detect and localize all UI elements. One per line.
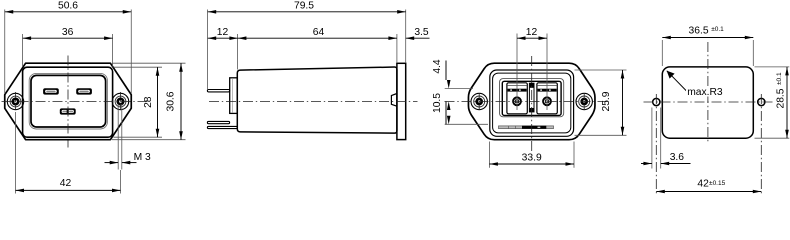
svg-text:25.9: 25.9 [601,91,612,111]
vertical centerline [531,56,533,152]
rear cover outer [490,70,574,136]
flange outline [5,63,132,140]
upper terminal pin [207,90,229,92]
dimension 3.6 [641,108,691,169]
svg-text:3.6: 3.6 [670,152,685,163]
svg-text:64: 64 [313,27,325,38]
gasket bump [391,94,397,107]
right hole centerline [760,94,762,195]
right washer [579,96,590,107]
left panel hole [653,98,660,105]
dimension 12 [517,27,547,40]
center vertical centerline [707,42,709,144]
earth contact slot [60,108,76,114]
flange side [397,63,406,139]
right terminal pocket [537,83,557,114]
body [237,67,397,133]
right mounting hole [118,99,123,104]
dimension 33.9 [489,142,574,168]
terminal housing [502,81,561,115]
vertical centerline [67,56,69,148]
svg-text:4.4: 4.4 [432,59,443,74]
flange outline [468,63,595,140]
left hole centerline [15,92,17,111]
svg-text:±0.15: ±0.15 [709,180,726,187]
contact slot L [43,88,59,94]
horizontal centerline [209,101,418,103]
face plate [23,67,113,137]
dimension M3 [105,104,152,170]
svg-text:max.R3: max.R3 [687,87,723,98]
left washer [474,96,485,107]
dimension 4.4 [432,59,473,88]
svg-text:79.5: 79.5 [294,0,314,11]
svg-text:12: 12 [526,27,538,38]
svg-text:36: 36 [62,27,74,38]
right ear boss [112,93,128,109]
left washer [10,96,21,107]
svg-text:42: 42 [697,178,709,189]
left ear boss [7,93,23,109]
right washer [115,96,126,107]
horizontal centerline [2,101,151,103]
right terminal screw [543,97,551,105]
dimension 42 [656,178,761,193]
dimension 10.5 [432,93,488,125]
rear cover inner [493,73,571,133]
left hole screw [477,99,482,104]
right hole screw [582,99,587,104]
dimension 64 [238,27,397,63]
svg-text:3.5: 3.5 [414,27,429,38]
dimension 42 [16,178,121,192]
svg-text:M 3: M 3 [134,152,151,163]
dimension 28 [114,67,163,137]
left hole centerline [655,94,657,195]
right hole centerline [120,92,122,111]
svg-text:10.5: 10.5 [432,93,443,113]
dimension 3.5 [406,27,430,40]
right ear boss [576,93,592,109]
svg-text:36.5: 36.5 [689,25,709,36]
left hole centerline [478,93,480,110]
right hole extension line [120,170,122,194]
svg-text:42: 42 [60,178,72,189]
earth tab [207,126,237,128]
dimension 28.5 [755,67,790,138]
recess chamfer [29,73,107,129]
horizontal centerline [445,101,608,103]
left hole extension line [15,112,17,194]
left terminal pocket [507,83,527,114]
svg-text:±0.1: ±0.1 [776,72,783,85]
terminal area outline [500,79,564,117]
horizontal centerline [644,101,775,103]
dimension 36 [23,27,113,67]
recess opening [31,75,106,127]
left ear boss [471,93,487,109]
right hole centerline [583,93,585,110]
svg-text:±0.1: ±0.1 [711,26,724,33]
svg-text:12: 12 [217,27,229,38]
svg-text:28.5: 28.5 [776,88,787,108]
dimension 25.9 [575,70,627,135]
divider [529,83,534,112]
contact slot N [76,88,92,94]
leader max.R3 [667,71,726,99]
svg-text:50.6: 50.6 [58,0,78,11]
cutout rectangle [662,67,753,138]
svg-text:33.9: 33.9 [522,152,542,163]
left mounting hole [13,99,18,104]
svg-text:28: 28 [143,96,154,108]
lower terminal pin [207,121,229,123]
right panel hole [758,98,765,105]
screw extension lines [516,34,518,111]
svg-text:30.6: 30.6 [166,91,177,111]
end cap [230,78,238,114]
label strip [499,126,554,129]
dimension 79.5 [208,0,406,89]
left terminal screw [513,97,521,105]
dimension 50.6 [5,0,132,93]
dimension 12 [208,27,238,70]
dimension 36.5 [662,25,753,66]
dimension 30.6 [112,63,186,140]
